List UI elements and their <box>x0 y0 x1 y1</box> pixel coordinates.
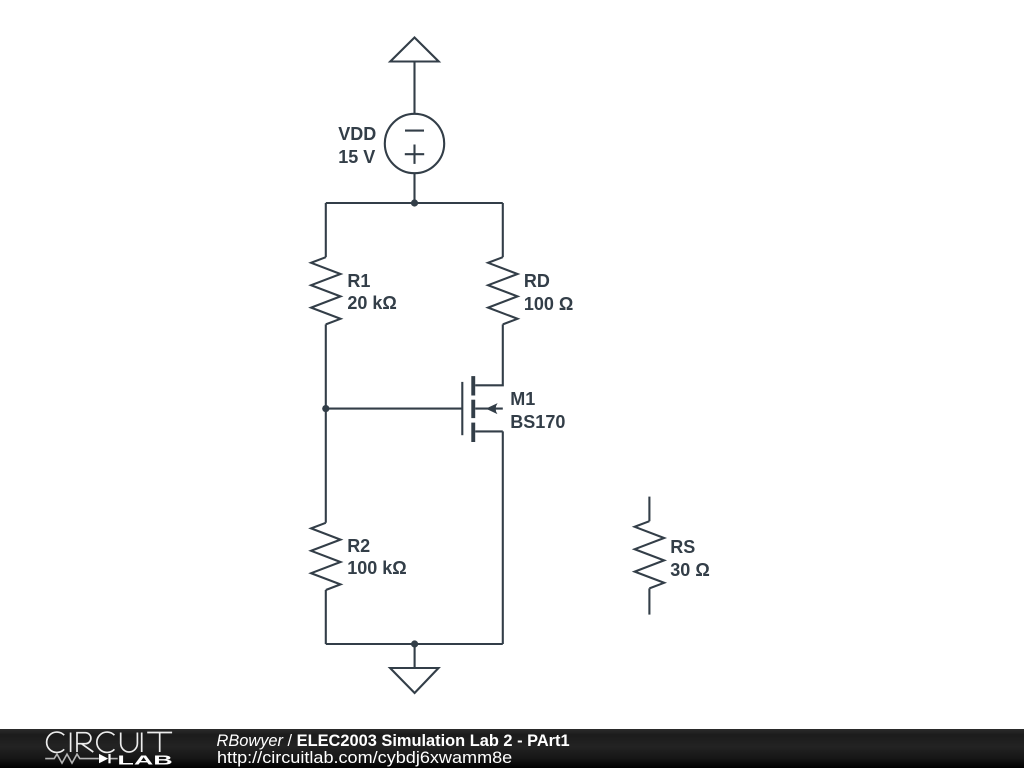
wire: top rail to R1 <box>325 203 327 257</box>
wire: top rail to RD <box>502 203 504 257</box>
node: gate junction <box>322 405 329 412</box>
power flag VDD (up arrow) <box>390 38 438 62</box>
wire: M1 source to bottom rail <box>502 431 504 644</box>
label R2 100 kOhm <box>347 535 406 580</box>
node: top rail junction <box>411 199 418 206</box>
resistor R2 <box>311 523 340 590</box>
node: ground junction <box>411 640 418 647</box>
wire: R1 bottom through gate node to R2 <box>325 324 327 522</box>
resistor RD <box>488 257 517 324</box>
wire: R2 bottom to bottom rail <box>325 590 327 644</box>
footer bar <box>0 729 1024 768</box>
CircuitLab logo <box>0 722 200 768</box>
footer url text <box>217 749 512 768</box>
wire: bottom rail <box>326 643 503 645</box>
wire: top rail <box>326 202 503 204</box>
label M1 BS170 <box>510 388 565 433</box>
wire: RD bottom to M1 drain <box>475 324 503 385</box>
resistor RS <box>635 497 664 615</box>
label VDD 15 V <box>338 123 376 168</box>
wire: source bottom to top rail <box>413 173 415 203</box>
resistor R1 <box>311 257 340 324</box>
label RD 100 Ohm <box>524 270 573 315</box>
label RS 30 Ohm <box>670 536 709 581</box>
voltage source V1 (VDD 15 V) <box>385 114 444 173</box>
wire: gate <box>326 408 463 410</box>
ground <box>390 644 438 693</box>
label R1 20 kOhm <box>347 270 396 315</box>
footer title text <box>217 732 570 751</box>
wire: arrow to source top <box>413 62 415 114</box>
transistor M1 (NMOS BS170) <box>462 376 503 442</box>
svg-text:LAB: LAB <box>117 753 172 767</box>
